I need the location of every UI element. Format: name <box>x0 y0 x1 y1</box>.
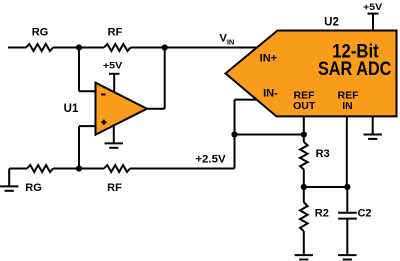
wire top input lead <box>8 47 26 49</box>
wire R2 top lead <box>303 187 305 202</box>
op-amp U1 <box>96 83 148 135</box>
wire +2.5V rail <box>130 168 235 170</box>
wire RF to ADC IN+ <box>131 47 259 49</box>
ground bottom-left <box>8 169 10 187</box>
svg-text:R3: R3 <box>316 148 330 160</box>
svg-text:RG: RG <box>25 182 42 194</box>
svg-text:RF: RF <box>107 182 122 194</box>
op-amp minus input sign <box>101 94 106 96</box>
wire non-inverting input stub <box>79 125 97 127</box>
svg-text:R2: R2 <box>315 208 329 220</box>
wire inverting input stub <box>79 90 97 92</box>
wire IN- stub <box>235 99 261 101</box>
resistor R3 <box>300 142 308 170</box>
+5V supply op-amp: wire <box>113 74 115 93</box>
wire RG to RF <box>53 47 104 49</box>
wire RG to junction <box>53 168 104 170</box>
wire feedback down to inverting input <box>78 48 80 92</box>
wire REF IN pin <box>346 116 348 187</box>
node junction RG/RF top <box>76 44 82 50</box>
svg-text:IN: IN <box>342 100 353 112</box>
wire C2 top lead <box>346 187 348 212</box>
ground op-amp <box>113 126 115 144</box>
svg-text:+2.5V: +2.5V <box>195 153 226 165</box>
ADC U2 pentagon <box>226 31 397 117</box>
ground ADC <box>372 116 374 134</box>
wire C2 bottom lead <box>346 220 348 256</box>
ground C2 <box>346 254 348 255</box>
+5V supply ADC: rail bar <box>368 13 379 15</box>
svg-text:C2: C2 <box>357 208 371 220</box>
wire R2 bottom lead <box>303 231 305 255</box>
wire op-amp output <box>146 108 165 110</box>
svg-text:+5V: +5V <box>363 2 383 13</box>
svg-text:+5V: +5V <box>103 60 123 71</box>
node junction bottom rail <box>76 165 82 171</box>
capacitor C2 <box>338 212 357 214</box>
resistor RF (top) <box>104 44 131 51</box>
node junction IN-/REF OUT <box>231 131 237 137</box>
resistor RG (top) <box>26 44 53 51</box>
wire output feedback up <box>164 48 166 109</box>
svg-text:IN+: IN+ <box>260 53 277 65</box>
+5V supply op-amp: rail bar <box>109 73 120 75</box>
svg-text:SAR ADC: SAR ADC <box>318 58 392 80</box>
node junction REF OUT <box>301 131 307 137</box>
wire non-inverting input down to bottom rail <box>78 126 80 168</box>
svg-text:RG: RG <box>32 27 49 39</box>
resistor R2 <box>300 202 308 231</box>
svg-text:VIN: VIN <box>220 33 235 47</box>
+5V supply ADC: wire <box>372 14 374 31</box>
svg-text:IN-: IN- <box>263 87 278 99</box>
svg-text:U2: U2 <box>324 17 339 29</box>
wire +2.5V up to IN- <box>234 100 236 169</box>
svg-text:U1: U1 <box>64 103 79 115</box>
wire REF OUT pin <box>303 116 305 141</box>
node junction R3/R2 <box>301 184 307 190</box>
wire R3/R2/C2 junction horizontal <box>304 186 348 188</box>
wire REF OUT horizontal <box>235 134 304 136</box>
op-amp plus input sign <box>101 121 106 123</box>
node junction C2 <box>344 184 350 190</box>
ground R2 <box>303 254 305 255</box>
svg-text:OUT: OUT <box>293 100 316 112</box>
wire bottom rail left <box>9 168 27 170</box>
resistor RF (bottom) <box>104 165 130 172</box>
resistor RG (bottom) <box>27 165 53 172</box>
wire R3 to junction <box>303 169 305 187</box>
svg-text:RF: RF <box>108 27 123 39</box>
node junction output/VIN <box>162 44 168 50</box>
